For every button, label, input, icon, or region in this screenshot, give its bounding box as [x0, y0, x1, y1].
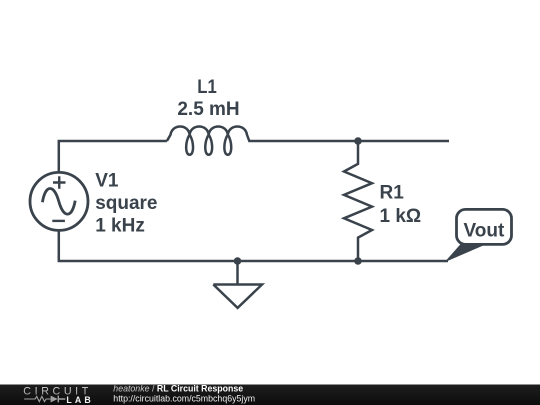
svg-text:square: square: [95, 193, 157, 214]
svg-text:1 kΩ: 1 kΩ: [380, 206, 422, 227]
ground: [213, 261, 262, 308]
junction dots: [234, 137, 362, 265]
plus sign: [53, 176, 66, 189]
node bottom junction: [354, 257, 362, 265]
resistor R1 zigzag branch: [344, 141, 372, 261]
svg-text:heatonke / RL Circuit Response: heatonke / RL Circuit Response: [113, 384, 243, 394]
wire V1 bottom to bottom rail: [59, 230, 448, 261]
labels: [95, 77, 421, 236]
node top junction: [354, 137, 362, 145]
svg-text:http://circuitlab.com/c5mbchq6: http://circuitlab.com/c5mbchq6y5jym: [113, 394, 255, 404]
svg-text:V1: V1: [95, 170, 119, 191]
Vout tail: [445, 243, 490, 262]
svg-text:2.5 mH: 2.5 mH: [177, 99, 239, 120]
svg-text:L1: L1: [197, 77, 217, 98]
node ground junction: [234, 257, 242, 265]
svg-text:1 kHz: 1 kHz: [95, 215, 145, 236]
minus sign: [52, 220, 65, 222]
logo resistor zigzag: [24, 396, 50, 401]
svg-text:LAB: LAB: [66, 395, 90, 405]
inductor L1: [167, 126, 449, 154]
svg-text:Vout: Vout: [464, 220, 505, 241]
voltage source V1: [30, 172, 88, 230]
logo diode: [51, 396, 58, 403]
wire top-left from V1 up and right to inductor: [59, 141, 167, 173]
Vout bubble: [457, 209, 512, 244]
sine symbol: [42, 189, 75, 215]
svg-text:R1: R1: [380, 183, 405, 204]
footer bar: [0, 385, 540, 405]
